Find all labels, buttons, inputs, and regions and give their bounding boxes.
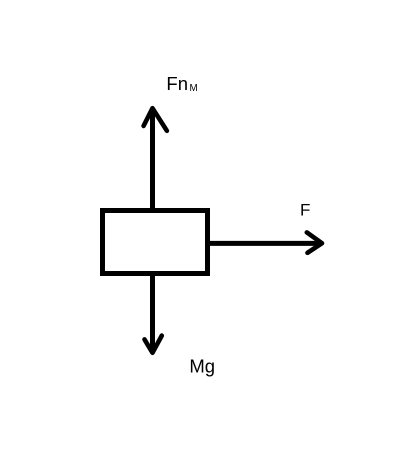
svg-text:F: F (300, 201, 310, 220)
wire: gravity force arrow shaft (down) (150, 275, 155, 352)
svg-text:Fn: Fn (166, 73, 188, 94)
svg-text:M: M (190, 83, 198, 94)
arrowhead Mg (down) (145, 336, 162, 353)
wire: normal force arrow shaft (up) (150, 110, 155, 210)
arrowhead F (right) (307, 232, 322, 252)
arrowhead Fn (up) (144, 108, 167, 131)
wire: applied force arrow shaft (right) (209, 241, 321, 246)
svg-text:Mg: Mg (189, 356, 215, 377)
box M (mass) (103, 211, 208, 274)
